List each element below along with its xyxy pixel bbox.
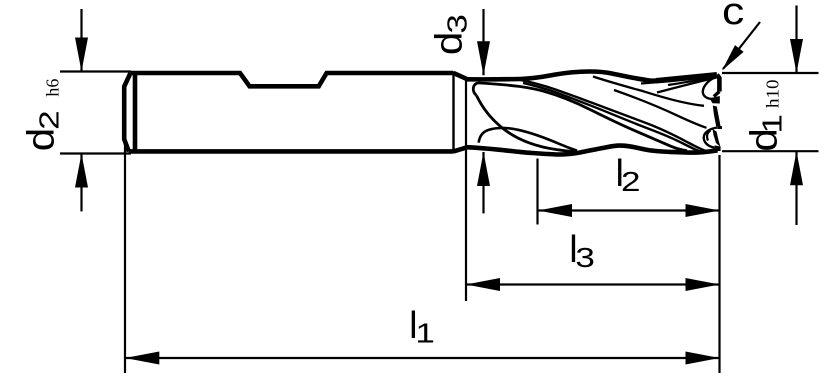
svg-text:1: 1	[415, 318, 435, 349]
svg-text:2: 2	[621, 166, 641, 197]
svg-text:d: d	[21, 128, 63, 152]
svg-text:c: c	[722, 0, 744, 33]
svg-text:1: 1	[757, 114, 788, 134]
svg-text:3: 3	[442, 14, 473, 34]
svg-text:h6: h6	[42, 79, 62, 97]
svg-text:2: 2	[34, 110, 65, 129]
svg-text:d: d	[429, 32, 471, 56]
svg-text:h10: h10	[763, 80, 783, 109]
svg-text:3: 3	[575, 242, 595, 273]
